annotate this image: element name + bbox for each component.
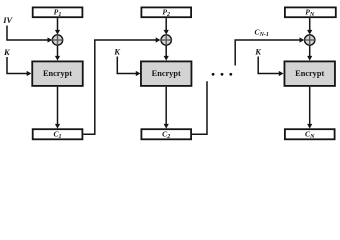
box PN — [285, 7, 336, 18]
xor X2 — [161, 35, 171, 45]
wire IV to XOR1 — [7, 26, 52, 43]
wire PN to XORN — [307, 18, 312, 34]
wire Encrypt1 to C1 — [55, 87, 60, 129]
wire XOR2 to Encrypt2 — [164, 46, 169, 61]
box P1 — [33, 7, 83, 18]
xor XN — [305, 35, 315, 45]
wire CN-1 to XORN — [235, 37, 304, 65]
wire K1 to Encrypt1 — [7, 57, 31, 76]
ellipsis dots — [212, 73, 233, 76]
wire EncryptN to CN — [307, 87, 312, 129]
box EncryptN — [284, 61, 335, 86]
box P2 — [141, 7, 191, 18]
wire XOR1 to Encrypt1 — [55, 46, 60, 61]
wire K2 to Encrypt2 — [117, 57, 140, 77]
wire KN to EncryptN — [258, 57, 283, 77]
wire P1 to XOR1 — [55, 18, 60, 34]
box CN — [285, 129, 335, 140]
svg-text:IV: IV — [2, 15, 13, 25]
box C2 — [141, 129, 191, 140]
xor X1 — [52, 35, 62, 45]
svg-text:Encrypt: Encrypt — [152, 69, 181, 78]
wire P2 to XOR2 — [164, 18, 169, 34]
wire XORN to EncryptN — [307, 46, 312, 61]
box Encrypt2 — [141, 61, 192, 86]
wire C1 feedback to XOR2 — [83, 37, 160, 134]
wire Encrypt2 to C2 — [164, 87, 169, 129]
svg-text:Encrypt: Encrypt — [295, 69, 324, 78]
wire C2 feedback partial — [192, 81, 207, 134]
box C1 — [33, 129, 83, 140]
svg-text:Encrypt: Encrypt — [43, 69, 72, 78]
box Encrypt1 — [32, 61, 83, 86]
